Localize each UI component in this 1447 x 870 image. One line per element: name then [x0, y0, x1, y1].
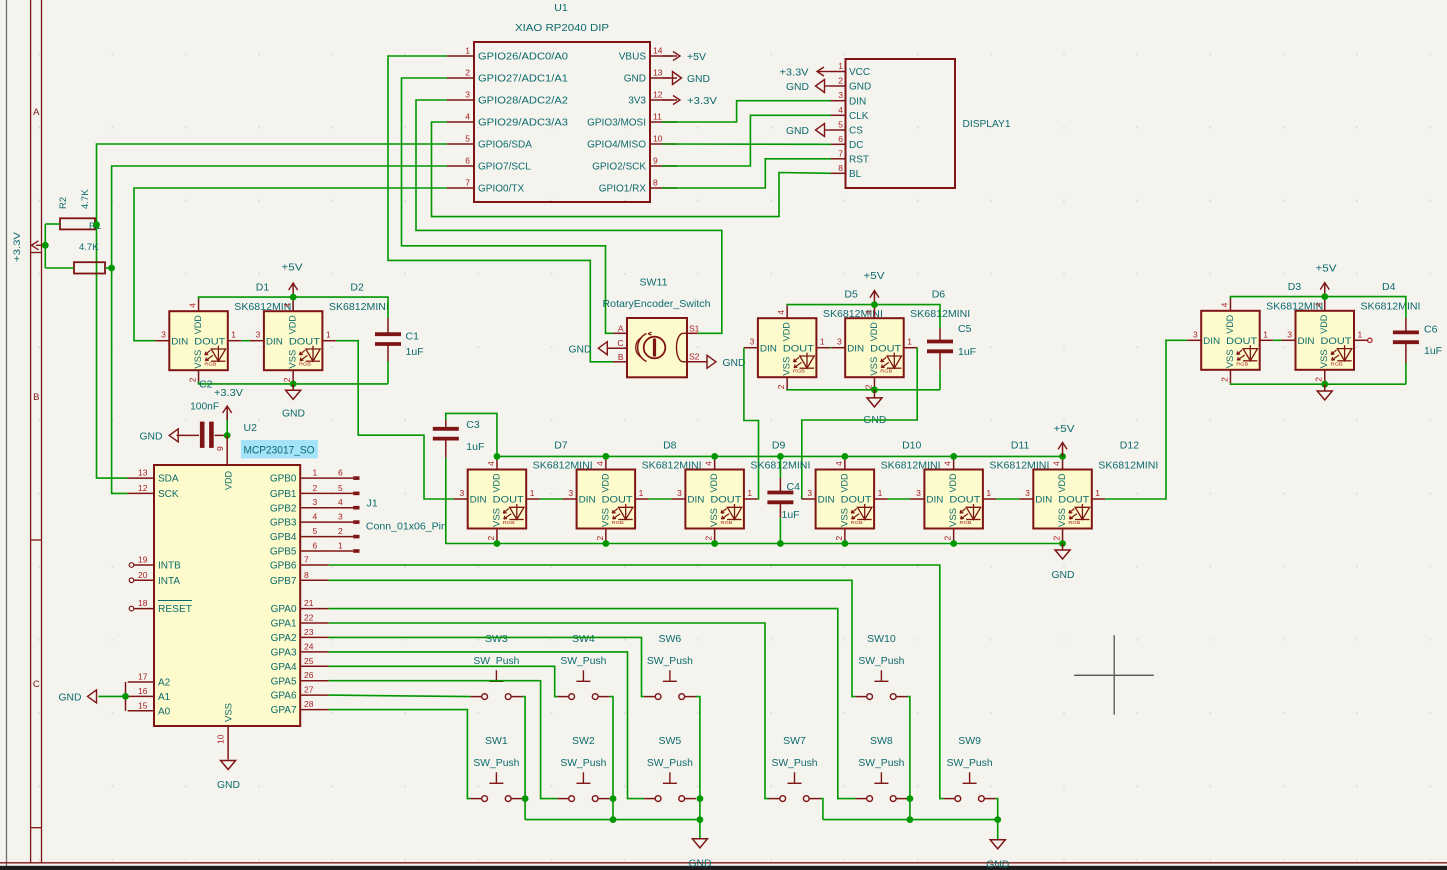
- svg-text:5: 5: [313, 526, 318, 536]
- wire C5 bottom to VSS rail: [939, 351, 941, 370]
- svg-text:D10: D10: [902, 440, 921, 452]
- svg-text:27: 27: [304, 685, 314, 695]
- svg-text:DOUT: DOUT: [949, 495, 980, 506]
- wire U2.GPA5 to SW2: [329, 681, 558, 799]
- svg-text:1: 1: [326, 330, 331, 340]
- svg-text:SW_Push: SW_Push: [560, 655, 606, 667]
- junction D6.VDD: [871, 301, 878, 308]
- wire U2.GPA3 to SW5: [329, 652, 644, 799]
- wire C1 bottom to VSS rail: [387, 344, 389, 361]
- svg-text:C6: C6: [1424, 324, 1438, 336]
- DISPLAY1 pin 3 DIN: [831, 90, 866, 107]
- svg-text:GPIO27/ADC1/A1: GPIO27/ADC1/A1: [478, 74, 568, 85]
- capacitor C2 100nF: [177, 422, 228, 448]
- svg-text:VSS: VSS: [288, 350, 299, 369]
- junction D10.VSS: [841, 540, 848, 547]
- svg-text:RGB: RGB: [503, 520, 515, 525]
- svg-text:GND: GND: [282, 408, 305, 419]
- svg-text:SW_Push: SW_Push: [647, 655, 693, 667]
- svg-text:4: 4: [1052, 461, 1062, 466]
- U2 pin 5 GPB4: [270, 532, 329, 543]
- wire VDD rail middle row (+5V): [497, 455, 1063, 457]
- LED D9 (SK6812MINI): [671, 457, 757, 542]
- svg-text:13: 13: [138, 468, 148, 478]
- power symbol +3.3V (U2.VDD): [214, 388, 243, 435]
- wire VDD rail D5 D6 C5 (+5V): [787, 305, 940, 328]
- bottom scrollbar bar: [0, 866, 1447, 870]
- svg-text:GND: GND: [786, 82, 809, 93]
- switch SW7 (SW_Push): [769, 772, 821, 801]
- U2 pin 20 INTA: [129, 570, 180, 587]
- DISPLAY1 pin 7 RST: [831, 148, 869, 165]
- wire U1.GPIO26 to SW11.B: [388, 56, 613, 362]
- svg-text:DOUT: DOUT: [194, 336, 225, 347]
- wire D11.DOUT to D12.DIN: [996, 498, 1019, 500]
- svg-text:D4: D4: [1382, 281, 1396, 293]
- capacitor C6 1uF: [1393, 332, 1419, 342]
- svg-text:GPB3: GPB3: [270, 518, 297, 529]
- svg-text:4: 4: [188, 303, 198, 308]
- U2 pin 12 SCK: [128, 483, 179, 500]
- switch SW4 (SW_Push): [557, 670, 609, 699]
- DISPLAY1 pin 1 VCC: [831, 61, 870, 78]
- svg-text:BL: BL: [849, 169, 862, 180]
- svg-text:VSS: VSS: [869, 357, 880, 376]
- svg-text:2: 2: [313, 483, 318, 493]
- svg-text:1: 1: [639, 488, 644, 498]
- no-connect circle D4.DOUT: [1368, 338, 1372, 342]
- svg-text:2: 2: [1314, 377, 1324, 382]
- U2 pin 28 GPA7: [271, 699, 329, 716]
- svg-text:DIN: DIN: [470, 495, 487, 506]
- svg-text:GPIO0/TX: GPIO0/TX: [478, 184, 524, 195]
- LED D2 (SK6812MINI): [250, 298, 336, 383]
- SW11 pin A: [613, 324, 627, 334]
- svg-text:+5V: +5V: [864, 271, 885, 282]
- svg-text:VDD: VDD: [1057, 473, 1068, 492]
- junction D7.VDD: [494, 453, 501, 460]
- junction D8.VSS: [602, 540, 609, 547]
- U2 pin 26 GPA5: [271, 670, 329, 687]
- switch SW2 (SW_Push): [557, 772, 609, 801]
- wire +3.3V rail left: [44, 224, 46, 268]
- svg-text:+3.3V: +3.3V: [214, 388, 243, 399]
- LED D11 (SK6812MINI): [910, 457, 996, 542]
- U2 pin 19 INTB: [129, 555, 181, 572]
- C6 top lead: [1405, 318, 1407, 332]
- junction D4.VSS: [1321, 381, 1328, 388]
- svg-text:DOUT: DOUT: [1226, 336, 1257, 347]
- junction SW5 right: [697, 795, 704, 802]
- U1 pin 6 GPIO7/SCL: [447, 156, 531, 173]
- svg-text:2: 2: [1219, 377, 1229, 382]
- ground symbol GND (D1/D2): [282, 384, 305, 419]
- svg-text:1: 1: [820, 337, 825, 347]
- svg-text:3: 3: [313, 497, 318, 507]
- junction C4 top: [777, 453, 784, 460]
- svg-text:1: 1: [1263, 329, 1268, 339]
- svg-text:21: 21: [304, 598, 314, 608]
- U2 pin 15 A0: [128, 700, 171, 717]
- U1 pin 1 GPIO26/ADC0/A0: [447, 46, 568, 63]
- svg-text:2: 2: [188, 377, 198, 382]
- DISPLAY1 pin 4 CLK: [831, 105, 869, 122]
- U1 pin 13 GND: [624, 68, 677, 85]
- svg-text:3: 3: [465, 90, 470, 100]
- global label GND on U1 pin 13: [662, 72, 710, 86]
- J1 pin 5: [313, 483, 360, 494]
- junction D11.VDD: [950, 453, 957, 460]
- svg-text:14: 14: [653, 46, 663, 56]
- svg-text:SW8: SW8: [870, 735, 893, 747]
- svg-text:3: 3: [256, 330, 261, 340]
- svg-text:8: 8: [304, 570, 309, 580]
- switch SW9 (SW_Push): [944, 772, 996, 801]
- svg-text:1uF: 1uF: [782, 509, 800, 521]
- svg-text:4: 4: [282, 303, 292, 308]
- svg-text:A: A: [33, 107, 40, 118]
- wire SW3 right to SW1 right to GND rail: [522, 697, 525, 820]
- svg-text:DIN: DIN: [171, 336, 188, 347]
- svg-text:VDD: VDD: [193, 315, 204, 334]
- U2 pin 22 GPA1: [271, 613, 329, 630]
- wire VDD stub D12: [1062, 456, 1064, 457]
- wire D2.DOUT to D7.DIN: [336, 341, 454, 499]
- svg-text:D3: D3: [1288, 281, 1302, 293]
- svg-text:2: 2: [704, 536, 714, 541]
- LED D12 (SK6812MINI): [1019, 457, 1105, 542]
- svg-text:3: 3: [807, 488, 812, 498]
- svg-text:U2: U2: [244, 422, 258, 434]
- svg-text:3: 3: [161, 330, 166, 340]
- svg-text:RST: RST: [849, 154, 869, 165]
- resistor R1: [45, 262, 111, 273]
- svg-text:DOUT: DOUT: [1321, 336, 1352, 347]
- U2 A2/A1/A0 tie bracket: [125, 682, 127, 711]
- LED D10 (SK6812MINI): [802, 457, 888, 542]
- svg-text:1uF: 1uF: [958, 346, 976, 358]
- svg-text:U1: U1: [554, 2, 568, 14]
- junction rail SW8 column: [907, 816, 914, 823]
- svg-text:DISPLAY1: DISPLAY1: [963, 118, 1011, 130]
- svg-text:26: 26: [304, 670, 314, 680]
- svg-text:DOUT: DOUT: [289, 336, 320, 347]
- svg-text:GPIO1/RX: GPIO1/RX: [599, 184, 647, 195]
- svg-text:VDD: VDD: [948, 473, 959, 492]
- svg-text:RGB: RGB: [880, 369, 892, 374]
- svg-text:GPA3: GPA3: [271, 648, 297, 659]
- svg-text:2: 2: [486, 536, 496, 541]
- svg-text:VSS: VSS: [709, 508, 720, 527]
- SW11 pin S2: [687, 352, 708, 362]
- svg-text:C: C: [617, 338, 623, 348]
- junction D9.VSS: [711, 540, 718, 547]
- switch SW5 (SW_Push): [644, 772, 696, 801]
- svg-text:GND: GND: [569, 344, 592, 355]
- svg-text:DIN: DIN: [818, 495, 835, 506]
- svg-text:SW1: SW1: [485, 735, 508, 747]
- svg-text:+3.3V: +3.3V: [780, 68, 809, 79]
- wire U1.GPIO3/MOSI to DISPLAY1.DIN: [662, 101, 831, 122]
- svg-text:19: 19: [138, 555, 148, 565]
- svg-text:GND: GND: [217, 780, 240, 791]
- wire SW4 right down: [609, 697, 613, 820]
- svg-text:VSS: VSS: [782, 357, 793, 376]
- power symbol +3.3V (left): [12, 231, 45, 262]
- U1 pin 5 GPIO6/SDA: [447, 134, 532, 151]
- svg-text:VDD: VDD: [491, 473, 502, 492]
- SW11 pin S1: [687, 324, 700, 334]
- svg-text:DOUT: DOUT: [783, 343, 814, 354]
- SW11 pin B: [613, 352, 627, 362]
- svg-text:C4: C4: [787, 481, 801, 493]
- wire VDD stub D7: [496, 456, 498, 457]
- U2 pin 13 SDA: [128, 468, 179, 485]
- svg-text:12: 12: [653, 90, 663, 100]
- svg-text:11: 11: [653, 112, 662, 122]
- DISPLAY1 pin 6 DC: [831, 134, 863, 151]
- junction D11.VSS: [950, 540, 957, 547]
- svg-text:GPA7: GPA7: [271, 705, 297, 716]
- LED D6 (SK6812MINI): [831, 305, 917, 390]
- svg-text:1: 1: [1095, 488, 1100, 498]
- svg-text:A1: A1: [158, 692, 171, 703]
- svg-text:23: 23: [304, 627, 314, 637]
- ground symbol GND (middle row): [1052, 544, 1075, 582]
- global label +5V on U1 pin 14: [662, 52, 706, 64]
- svg-text:SW2: SW2: [572, 735, 595, 747]
- svg-text:VSS: VSS: [1225, 349, 1236, 368]
- svg-text:VDD: VDD: [1225, 315, 1236, 334]
- svg-text:VDD: VDD: [869, 322, 880, 341]
- svg-text:1: 1: [878, 488, 883, 498]
- svg-text:1uF: 1uF: [466, 441, 484, 453]
- wire U2.GPB7 to SW10: [329, 580, 856, 696]
- svg-text:3: 3: [1025, 488, 1030, 498]
- DISPLAY1 pin 8 BL: [831, 163, 862, 180]
- svg-text:RGB: RGB: [1068, 520, 1080, 525]
- svg-text:SK6812MINI: SK6812MINI: [329, 301, 389, 313]
- svg-text:DOUT: DOUT: [1058, 495, 1089, 506]
- wire U2.GPA4 to SW4: [329, 666, 558, 696]
- sheet border (page edge): [6, 0, 8, 866]
- LED D5 (SK6812MINI): [744, 305, 830, 390]
- svg-text:VSS: VSS: [491, 508, 502, 527]
- junction D4.VDD: [1321, 293, 1328, 300]
- svg-text:SW6: SW6: [659, 633, 682, 645]
- svg-text:VSS: VSS: [1319, 349, 1330, 368]
- U2 pin 21 GPA0: [271, 598, 329, 615]
- svg-text:2: 2: [595, 536, 605, 541]
- U2 pin 2 GPB1: [270, 489, 329, 500]
- wire D8.DOUT to D9.DIN: [649, 498, 672, 500]
- svg-text:DOUT: DOUT: [493, 495, 524, 506]
- svg-text:SW_Push: SW_Push: [947, 757, 993, 769]
- capacitor C5 1uF: [927, 342, 953, 352]
- wire VDD stub D9: [714, 456, 716, 457]
- svg-text:2: 2: [465, 68, 470, 78]
- J1 pin 2: [313, 526, 360, 537]
- wire U2.GPA1 to SW7: [329, 623, 769, 799]
- svg-text:4: 4: [465, 112, 470, 122]
- svg-text:GND: GND: [689, 859, 712, 870]
- ground symbol GND (U2.VSS): [217, 761, 240, 792]
- svg-text:DOUT: DOUT: [710, 495, 741, 506]
- svg-text:GPB2: GPB2: [270, 503, 297, 514]
- svg-text:GPA6: GPA6: [271, 691, 297, 702]
- svg-text:13: 13: [653, 68, 663, 78]
- svg-text:4: 4: [834, 461, 844, 466]
- U2 pin 18 RESET: [129, 598, 192, 615]
- junction D8.VDD: [602, 453, 609, 460]
- capacitor C1 1uF: [375, 334, 401, 344]
- wire U1.GPIO29 to DISPLAY1.BL: [432, 122, 832, 217]
- svg-text:15: 15: [138, 700, 148, 710]
- U1 pin 12 3V3: [628, 90, 677, 107]
- svg-text:GPA0: GPA0: [271, 604, 297, 615]
- svg-text:1: 1: [338, 541, 343, 551]
- svg-text:100nF: 100nF: [190, 401, 219, 413]
- wire VSS rail middle row: [497, 543, 1063, 545]
- svg-text:DIN: DIN: [760, 343, 777, 354]
- svg-text:C: C: [33, 679, 40, 690]
- svg-text:5: 5: [338, 483, 343, 493]
- global label GND at U2 A1: [59, 690, 97, 704]
- J1 pin 4: [313, 497, 360, 508]
- frame outer line: [30, 0, 32, 863]
- svg-text:DIN: DIN: [266, 336, 283, 347]
- svg-text:1: 1: [1358, 329, 1363, 339]
- svg-text:4: 4: [313, 512, 318, 522]
- svg-text:GND: GND: [1052, 570, 1075, 581]
- svg-text:24: 24: [304, 641, 314, 651]
- wire C4 top to VDD rail: [779, 456, 781, 478]
- LED D3 (SK6812MINI): [1187, 298, 1273, 383]
- svg-text:2: 2: [838, 76, 843, 86]
- svg-text:4: 4: [776, 310, 786, 315]
- svg-text:2: 2: [1052, 536, 1062, 541]
- svg-text:R2: R2: [58, 197, 69, 209]
- svg-text:3: 3: [837, 337, 842, 347]
- U1 pin 8 GPIO1/RX: [599, 178, 677, 195]
- svg-text:GND: GND: [723, 358, 746, 369]
- junction D2.VDD: [290, 294, 297, 301]
- U2 pin 3 GPB2: [270, 503, 329, 514]
- frame bottom line: [0, 862, 1447, 864]
- svg-text:1: 1: [986, 488, 991, 498]
- wire VDD rail D1 D2 C1 (+5V): [199, 297, 388, 318]
- wire D3.DOUT to D4.DIN: [1273, 339, 1281, 341]
- svg-text:4: 4: [1219, 302, 1229, 307]
- DISPLAY1 pin 5 CS: [831, 120, 863, 137]
- svg-text:A0: A0: [158, 706, 171, 717]
- wire SW9 right down: [996, 799, 998, 820]
- junction D12.VDD: [1059, 453, 1066, 460]
- svg-text:4: 4: [943, 461, 953, 466]
- junction SW2 right: [610, 795, 617, 802]
- C5 top lead: [939, 328, 941, 342]
- svg-text:A: A: [618, 324, 624, 334]
- svg-text:DOUT: DOUT: [841, 495, 872, 506]
- svg-text:4: 4: [486, 461, 496, 466]
- U1 pin 10 GPIO4/MISO: [587, 134, 677, 151]
- svg-text:GPB7: GPB7: [270, 576, 297, 587]
- svg-text:2: 2: [282, 377, 292, 382]
- svg-text:D7: D7: [554, 440, 568, 452]
- U2 VSS pin 10: [216, 726, 229, 760]
- svg-text:10: 10: [216, 734, 226, 744]
- svg-text:RotaryEncoder_Switch: RotaryEncoder_Switch: [603, 298, 711, 310]
- U2 pin 6 GPB5: [270, 547, 329, 558]
- switch SW6 (SW_Push): [644, 670, 696, 699]
- svg-text:4.7K: 4.7K: [79, 242, 99, 253]
- wire U2.GPB6 to SW9: [329, 565, 944, 799]
- junction C4 bottom: [777, 540, 784, 547]
- svg-text:RGB: RGB: [299, 362, 311, 367]
- svg-text:GPB1: GPB1: [270, 489, 297, 500]
- ground symbol (D3/D4): [1317, 384, 1332, 400]
- wire D1.DOUT to D2.DIN: [241, 340, 250, 342]
- junction R1 right: [108, 265, 115, 272]
- wire VDD stub D10: [844, 456, 846, 457]
- svg-text:SW7: SW7: [783, 735, 806, 747]
- U1 pin 4 GPIO29/ADC3/A3: [447, 112, 568, 129]
- power symbol +5V (D3/D4): [1316, 264, 1337, 297]
- svg-text:2: 2: [776, 384, 786, 389]
- svg-text:3: 3: [916, 488, 921, 498]
- svg-text:RGB: RGB: [1236, 361, 1248, 366]
- wire D9.DOUT to D5.DIN: [744, 348, 759, 499]
- junction +3.3V left: [42, 242, 49, 249]
- wire U2.GPA2 to SW6: [329, 637, 644, 696]
- svg-text:C2: C2: [199, 379, 213, 391]
- svg-text:4: 4: [838, 105, 843, 115]
- svg-text:SW10: SW10: [867, 633, 896, 645]
- svg-text:CLK: CLK: [849, 111, 869, 122]
- wire VSS rail D5 D6 C5: [787, 389, 940, 392]
- wire VDD rail D3 D4 C6 (+5V): [1230, 297, 1405, 318]
- svg-text:B: B: [618, 352, 624, 362]
- svg-text:VDD: VDD: [1319, 315, 1330, 334]
- svg-text:DIN: DIN: [1203, 336, 1220, 347]
- svg-text:5: 5: [838, 120, 843, 130]
- U1 pin 3 GPIO28/ADC2/A2: [447, 90, 568, 107]
- junction D2.VSS: [290, 381, 297, 388]
- svg-text:VDD: VDD: [600, 473, 611, 492]
- svg-text:D9: D9: [772, 440, 786, 452]
- svg-text:3: 3: [750, 337, 755, 347]
- svg-text:D12: D12: [1120, 440, 1139, 452]
- svg-text:VSS: VSS: [224, 703, 235, 722]
- svg-text:6: 6: [313, 541, 318, 551]
- svg-text:D6: D6: [932, 288, 946, 300]
- svg-text:VSS: VSS: [1057, 508, 1068, 527]
- svg-text:XIAO RP2040 DIP: XIAO RP2040 DIP: [515, 22, 609, 34]
- svg-text:RGB: RGB: [793, 369, 805, 374]
- svg-text:GPIO7/SCL: GPIO7/SCL: [478, 162, 531, 173]
- svg-text:1: 1: [231, 330, 236, 340]
- svg-text:3: 3: [568, 488, 573, 498]
- svg-text:4: 4: [595, 461, 605, 466]
- svg-text:VSS: VSS: [193, 350, 204, 369]
- svg-text:RGB: RGB: [204, 362, 216, 367]
- svg-text:GPA2: GPA2: [271, 633, 297, 644]
- svg-text:SW3: SW3: [485, 633, 508, 645]
- svg-text:DIN: DIN: [579, 495, 596, 506]
- svg-text:DOUT: DOUT: [870, 343, 901, 354]
- svg-text:Conn_01x06_Pin: Conn_01x06_Pin: [366, 520, 447, 532]
- svg-text:8: 8: [653, 178, 658, 188]
